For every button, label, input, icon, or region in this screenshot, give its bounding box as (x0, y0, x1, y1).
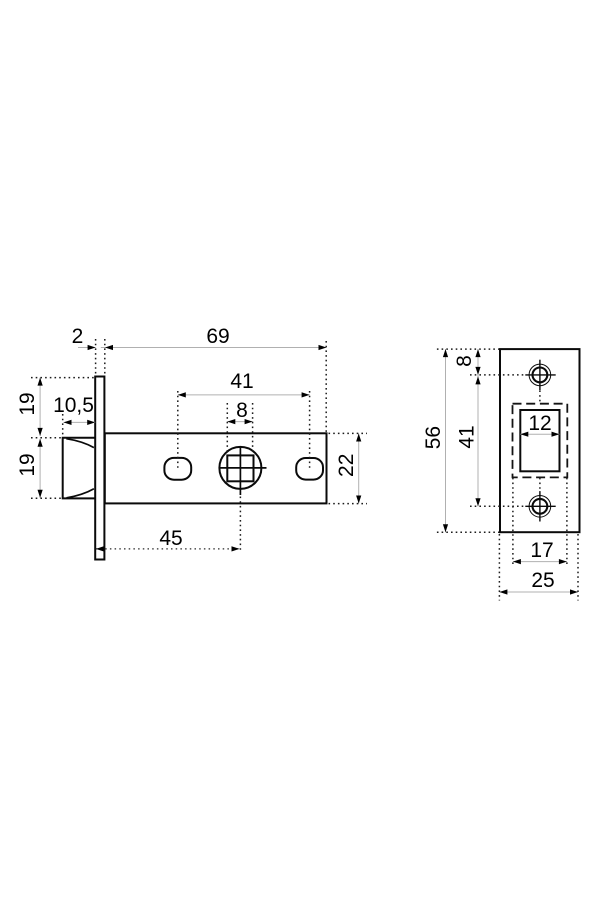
arrow 10,5 left (64, 420, 72, 425)
ext 25 left (498, 534, 500, 601)
top screw hole outer circle (529, 364, 551, 386)
latch cutout rectangle (520, 410, 559, 471)
arrow 19a up (38, 378, 43, 386)
ext bolt top horizontal (31, 437, 62, 439)
arrow 22 down (356, 496, 361, 504)
arrow 8L right (245, 419, 253, 424)
latch case body (105, 433, 327, 503)
top screw crosshair (525, 374, 555, 376)
top screw hole inner circle (533, 368, 548, 383)
dim line 41 right view (477, 375, 479, 506)
dim line 25 (499, 591, 578, 593)
arrow 69 right (319, 345, 327, 350)
ext plate center bottom segment (539, 478, 541, 491)
arrow 56 up (443, 349, 448, 357)
arrow 41L right (302, 392, 310, 397)
svg-text:45: 45 (159, 527, 182, 550)
arrow 19b up (38, 439, 43, 447)
dim line 17 (513, 561, 567, 563)
arrow 8R up (475, 349, 480, 357)
svg-text:19: 19 (16, 392, 39, 415)
ext center axis to 45 (239, 497, 241, 553)
bottom screw crosshair (525, 505, 555, 507)
dim line 56 (445, 349, 447, 532)
arrow 2-dim right tip (88, 345, 96, 350)
arrow 17 right (559, 559, 567, 564)
svg-text:19: 19 (16, 453, 39, 476)
strike plate (500, 349, 580, 532)
ext 17 left (512, 478, 514, 566)
ext body right x=326.2 (325, 341, 327, 432)
arrow 12 left (520, 432, 528, 437)
ext square right (252, 403, 254, 455)
svg-text:2: 2 (72, 325, 84, 348)
svg-text:8: 8 (453, 355, 476, 367)
ext 17 right (566, 478, 568, 566)
svg-text:41: 41 (456, 425, 479, 448)
faceplate side view (95, 377, 104, 560)
svg-text:69: 69 (206, 325, 229, 348)
arrow 25 left (499, 589, 507, 594)
arrow 45 right (232, 546, 240, 551)
ext bolt bottom horizontal (31, 497, 62, 499)
arrow 10,5 right (87, 420, 95, 425)
ext top screw horizontal (470, 374, 525, 376)
dim line 8 left view (227, 421, 252, 423)
ext plate center top segment (539, 390, 541, 403)
ext body bottom right horizontal (329, 503, 368, 505)
dashed cutout rectangle (513, 404, 568, 478)
arrow 25 right (570, 589, 578, 594)
arrow 45 left (96, 546, 104, 551)
ext right oval center (309, 391, 311, 469)
arrow 41R up (475, 376, 480, 384)
dim line 19 top (39, 378, 41, 436)
dim line 69 (101, 347, 327, 349)
ext plate top horizontal (437, 348, 499, 350)
latch bolt bottom bevel curve (67, 489, 94, 498)
bottom screw hole outer circle (529, 496, 551, 518)
arrow 41R down (475, 498, 480, 506)
arrow 41L left (178, 392, 186, 397)
ext faceplate back x=104.8 (104, 339, 106, 375)
arrow 19a down (38, 428, 43, 436)
dim line 2 tail (78, 347, 96, 349)
ext square left (226, 403, 228, 455)
arrow 12 right (552, 432, 560, 437)
ext plate bottom horizontal (437, 531, 499, 533)
spindle crosshair horizontal (219, 467, 267, 469)
ext faceplate top horizontal (31, 377, 94, 379)
spindle circle (219, 447, 261, 489)
ext left oval center (177, 391, 179, 469)
dim line 12 (520, 433, 559, 435)
dim line 19 bottom (39, 439, 41, 498)
arrow 56 down (443, 524, 448, 532)
left oval hole (164, 458, 191, 480)
svg-text:25: 25 (531, 569, 554, 592)
spindle square hole (227, 455, 253, 481)
svg-text:41: 41 (230, 370, 253, 393)
svg-text:56: 56 (422, 426, 445, 449)
arrow 8R down (475, 367, 480, 375)
spindle crosshair vertical (239, 446, 241, 495)
latch bolt top bevel curve (66, 439, 94, 448)
arrow 17 left (513, 559, 521, 564)
dim line 22 (358, 434, 360, 504)
ext faceplate front x=95.6 (95, 339, 97, 375)
arrow 22 up (356, 434, 361, 442)
svg-text:12: 12 (528, 412, 551, 435)
ext 25 right (577, 534, 579, 601)
ext bolt left (62, 414, 64, 437)
right oval hole (296, 458, 323, 480)
svg-text:22: 22 (335, 454, 358, 477)
dim line 10,5 (64, 421, 96, 423)
arrow 19b down (38, 490, 43, 498)
bottom screw hole inner circle (533, 499, 548, 514)
dim line 45 dotted (96, 548, 240, 550)
arrow 69 left (105, 345, 113, 350)
svg-text:8: 8 (236, 399, 248, 422)
arrow 8L left (227, 419, 235, 424)
svg-text:10,5: 10,5 (53, 394, 94, 417)
dim line 41 left view (178, 394, 310, 396)
dim line 8 right view (477, 349, 479, 375)
ext bottom screw horizontal (470, 505, 525, 507)
svg-text:17: 17 (530, 539, 553, 562)
latch bolt outline (63, 438, 96, 499)
ext body top right horizontal (329, 432, 368, 434)
